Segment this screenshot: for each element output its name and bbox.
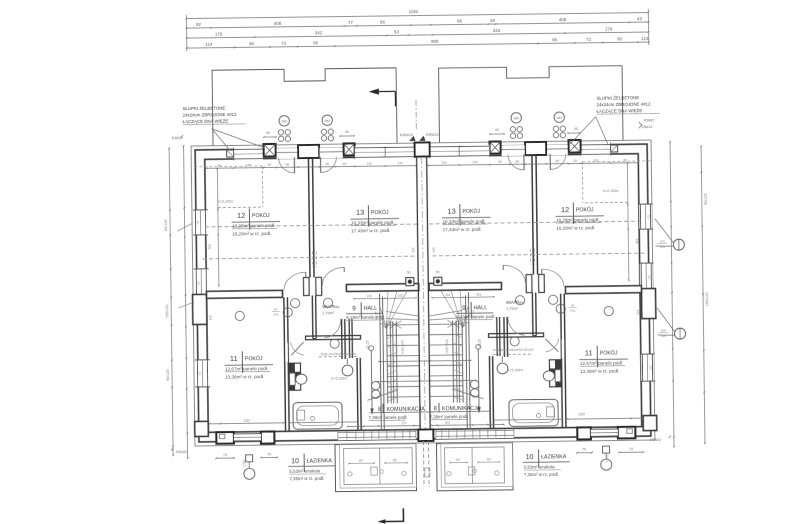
bottom center mark — [380, 508, 404, 521]
vestibule circles — [290, 299, 299, 308]
svg-text:16,33m² panele podł.: 16,33m² panele podł. — [443, 218, 486, 224]
svg-text:50: 50 — [407, 271, 411, 275]
svg-text:2,0%: 2,0% — [242, 460, 246, 468]
vestibule wall — [341, 319, 344, 359]
walk line — [476, 344, 481, 349]
interior top dim row — [428, 163, 638, 166]
svg-text:302: 302 — [635, 238, 639, 244]
top dimension lines — [185, 6, 649, 51]
svg-text:105: 105 — [660, 245, 665, 249]
svg-text:RSW12: RSW12 — [426, 133, 439, 137]
vestibule door arc to wc — [324, 319, 341, 338]
bottom wall window — [591, 428, 618, 436]
svg-text:24x24cm ZBROJONE 4#12: 24x24cm ZBROJONE 4#12 — [183, 112, 238, 118]
svg-text:10: 10 — [291, 458, 299, 465]
right side circle markers — [673, 239, 684, 250]
interroom wall cap — [298, 145, 319, 158]
stair flight band — [387, 321, 388, 403]
svg-text:17x18,2x25: 17x18,2x25 — [401, 340, 405, 357]
left wall windows — [194, 210, 207, 235]
svg-text:12: 12 — [561, 205, 569, 214]
vestibule left wall (below cap) — [535, 293, 538, 336]
svg-text:RSW2: RSW2 — [644, 118, 654, 122]
walk line — [369, 346, 374, 351]
svg-text:808: 808 — [431, 39, 439, 44]
svg-text:53: 53 — [394, 29, 400, 34]
bathtub — [509, 399, 558, 426]
dashed bath line — [491, 353, 531, 356]
svg-text:96: 96 — [380, 20, 386, 25]
svg-text:DB2: DB2 — [281, 119, 287, 123]
svg-text:96: 96 — [552, 37, 558, 42]
svg-text:96: 96 — [325, 162, 329, 166]
svg-text:119: 119 — [445, 421, 450, 425]
door jambs bottom of interroom wall — [303, 278, 309, 296]
svg-text:200: 200 — [578, 412, 584, 416]
svg-text:16,28m² panele podł.: 16,28m² panele podł. — [232, 223, 275, 229]
svg-text:DB2: DB2 — [513, 116, 519, 120]
leader lines slupki right — [570, 117, 596, 144]
svg-text:119: 119 — [401, 421, 406, 425]
komunikacja circles — [470, 380, 479, 389]
wall between rooms 12/13 — [308, 158, 310, 277]
svg-text:13,36m² w rz. podł.: 13,36m² w rz. podł. — [580, 368, 619, 374]
flue square with dot — [406, 278, 414, 286]
wall pilaster left bottom corner — [643, 415, 657, 430]
svg-text:150/120: 150/120 — [705, 292, 709, 306]
svg-text:16,20m² w rz. podł.: 16,20m² w rz. podł. — [232, 231, 271, 237]
svg-text:linia przemarzania stropu: linia przemarzania stropu — [493, 347, 534, 352]
svg-text:RSW2: RSW2 — [650, 438, 661, 442]
45 dim above doors — [264, 136, 276, 138]
svg-text:72: 72 — [586, 37, 592, 42]
svg-text:150/120: 150/120 — [165, 304, 169, 318]
party wall centerline above — [415, 100, 417, 129]
balcony door (room 13) — [502, 145, 525, 156]
svg-text:45: 45 — [266, 131, 270, 135]
svg-text:105: 105 — [661, 334, 666, 338]
wc wall stub — [348, 319, 351, 358]
winder X — [389, 321, 401, 329]
svg-text:20,25: 20,25 — [366, 340, 370, 349]
svg-text:POKÓJ: POKÓJ — [371, 209, 389, 216]
dashed roof projection line — [430, 253, 645, 256]
top wall: small column — [227, 150, 234, 157]
left dim lines — [169, 148, 173, 455]
svg-text:HALL: HALL — [364, 306, 378, 312]
wall inner line — [205, 154, 642, 433]
svg-text:205: 205 — [273, 312, 278, 316]
svg-text:11: 11 — [585, 348, 593, 357]
svg-text:142: 142 — [366, 161, 372, 165]
washbasin — [497, 363, 508, 374]
dashed ceiling line room12 — [582, 160, 650, 163]
balcony door left (room 12) — [277, 148, 298, 159]
svg-text:145: 145 — [445, 293, 451, 297]
dashed ceiling line room12 — [194, 165, 262, 168]
svg-text:POKÓJ: POKÓJ — [462, 208, 480, 215]
svg-text:13,36m² w rz. podł.: 13,36m² w rz. podł. — [225, 374, 264, 380]
terrace door/window bottom — [338, 431, 416, 441]
svg-text:439: 439 — [431, 247, 435, 253]
winder X — [447, 320, 459, 328]
chimney block hatched — [288, 363, 300, 390]
svg-text:O2: O2 — [648, 365, 652, 369]
vertical interior dim — [627, 163, 629, 280]
svg-text:2,0%: 2,0% — [605, 455, 609, 463]
svg-text:h=2,20m: h=2,20m — [331, 376, 347, 381]
stairs treads — [430, 323, 463, 325]
bottom wall window — [234, 433, 261, 441]
svg-text:HALL: HALL — [474, 305, 488, 311]
wc wall stub — [499, 317, 502, 356]
svg-text:ŁAZIENKA: ŁAZIENKA — [541, 454, 567, 460]
top wall: small column — [611, 145, 618, 152]
dashed roof projection line — [203, 256, 418, 259]
vestibule circles — [548, 295, 557, 304]
svg-text:7,36m² w rz. podł.: 7,36m² w rz. podł. — [524, 472, 559, 477]
svg-text:12,67m² panele podł.: 12,67m² panele podł. — [580, 360, 623, 366]
svg-text:24x24cm ZBROJONE 4#12: 24x24cm ZBROJONE 4#12 — [597, 102, 652, 108]
interior bottom dim row — [568, 417, 642, 420]
terrace door/window bottom — [436, 429, 514, 439]
svg-text:O2: O2 — [196, 220, 200, 224]
svg-text:ŁAZIENKA: ŁAZIENKA — [307, 458, 333, 464]
dim row under hall wall — [354, 297, 416, 300]
DB columns circles above top wall — [279, 116, 290, 127]
svg-text:77: 77 — [348, 20, 354, 25]
svg-text:45: 45 — [573, 159, 577, 163]
komunikacja circles — [371, 381, 380, 390]
door room12-hall — [542, 269, 564, 287]
interior top dim row — [206, 166, 416, 169]
svg-text:142: 142 — [472, 160, 478, 164]
svg-text:DB2: DB2 — [324, 119, 330, 123]
svg-text:POKÓJ: POKÓJ — [252, 212, 270, 219]
svg-text:RSW12: RSW12 — [400, 133, 413, 137]
svg-text:90/120: 90/120 — [166, 370, 170, 382]
bottom wall columns — [618, 427, 636, 439]
vestibule door arc to wc — [508, 316, 525, 335]
wall pilaster left mid — [193, 294, 207, 324]
svg-text:DB2: DB2 — [556, 116, 562, 120]
svg-text:45°: 45° — [359, 459, 365, 463]
svg-text:RSW2: RSW2 — [176, 450, 187, 454]
svg-text:ŁĄCZĄCE DNA WIEŻE: ŁĄCZĄCE DNA WIEŻE — [183, 119, 229, 125]
svg-text:SŁUPKI ŻELBETONE: SŁUPKI ŻELBETONE — [183, 106, 226, 112]
svg-text:POKÓJ: POKÓJ — [245, 355, 263, 362]
svg-text:h=2,20m: h=2,20m — [603, 188, 619, 193]
column S1 (24x24) — [569, 140, 581, 153]
svg-text:142: 142 — [397, 161, 403, 165]
svg-text:5,19m² panele podł.: 5,19m² panele podł. — [456, 314, 495, 320]
terrace left — [335, 444, 417, 492]
svg-text:408: 408 — [559, 17, 567, 22]
party wall — [417, 157, 421, 430]
column S2 — [490, 141, 501, 153]
circle below wiatr — [510, 337, 519, 346]
vestibule wall — [506, 317, 509, 357]
svg-text:90/120: 90/120 — [164, 220, 168, 232]
hall north wall left segment — [206, 290, 282, 298]
wall outer line — [195, 144, 651, 442]
leader lines slupki left — [212, 129, 230, 151]
roof outline right — [439, 66, 623, 143]
svg-text:179: 179 — [605, 27, 613, 32]
svg-text:45: 45 — [574, 127, 578, 131]
door room12-hall — [284, 272, 306, 290]
svg-text:O2: O2 — [646, 214, 650, 218]
vertical interior dim — [217, 169, 219, 286]
leader to left window — [177, 224, 192, 232]
bottom-left circle marker — [246, 455, 253, 462]
svg-text:302: 302 — [208, 244, 212, 250]
interroom wall cap — [525, 142, 546, 155]
svg-text:70: 70 — [267, 452, 271, 456]
svg-text:408: 408 — [274, 21, 282, 26]
stair flight band — [462, 321, 463, 403]
stair stringer wall — [468, 292, 470, 429]
chimney block hatched — [549, 360, 561, 387]
45 dim above doors — [568, 132, 580, 134]
svg-text:13: 13 — [447, 207, 455, 216]
dashed bath line — [319, 355, 359, 358]
stairs winder fan — [380, 305, 387, 328]
wall vestibule/bath horizontal — [489, 333, 544, 337]
washbasin — [342, 365, 353, 376]
vestibule left wall (below cap) — [311, 295, 314, 338]
svg-text:145: 145 — [593, 158, 599, 162]
hall north wall left segment — [565, 286, 641, 294]
svg-text:439: 439 — [411, 247, 415, 253]
svg-text:h=2,20m: h=2,20m — [507, 367, 523, 372]
outer contour — [191, 140, 655, 446]
top wall window 2 (long) — [430, 145, 490, 158]
stairwell dim lines — [379, 360, 471, 361]
svg-text:124: 124 — [641, 36, 649, 41]
svg-text:70: 70 — [629, 447, 633, 451]
svg-text:13: 13 — [356, 208, 364, 217]
svg-text:145: 145 — [476, 293, 482, 297]
svg-text:9: 9 — [352, 305, 356, 312]
svg-text:45°: 45° — [487, 458, 493, 462]
svg-text:11: 11 — [230, 354, 238, 363]
svg-text:linia przekrycia dachu: linia przekrycia dachu — [321, 352, 357, 356]
svg-text:80: 80 — [571, 304, 575, 308]
svg-text:96: 96 — [217, 163, 221, 167]
svg-text:175: 175 — [215, 32, 223, 37]
svg-text:17,43m² w rz. podł.: 17,43m² w rz. podł. — [351, 228, 390, 234]
svg-text:9: 9 — [462, 305, 466, 312]
hall north wall right segment — [346, 284, 418, 292]
svg-text:1192: 1192 — [409, 9, 419, 14]
toilet — [555, 370, 561, 382]
svg-text:12,67m² panele podł.: 12,67m² panele podł. — [225, 366, 268, 372]
svg-text:151: 151 — [209, 315, 213, 321]
stairs winder fan — [462, 304, 469, 327]
bottom-right circle marker — [603, 446, 610, 453]
svg-text:90: 90 — [249, 41, 255, 46]
svg-text:5,19m² panele podł.: 5,19m² panele podł. — [346, 314, 385, 320]
terrace right — [436, 443, 513, 491]
svg-text:98: 98 — [457, 19, 463, 24]
svg-text:12: 12 — [237, 211, 245, 220]
svg-text:25#12: 25#12 — [642, 125, 653, 129]
wall room11/bath — [284, 297, 286, 431]
svg-text:7,36m² w rz. podł.: 7,36m² w rz. podł. — [289, 476, 324, 481]
flag markers — [410, 137, 415, 141]
stair stringer wall — [380, 294, 382, 431]
svg-text:96: 96 — [623, 158, 627, 162]
wall pilaster left bottom corner — [195, 421, 209, 436]
svg-text:70: 70 — [582, 447, 586, 451]
toilet — [290, 373, 296, 385]
bottom wall columns — [216, 432, 234, 444]
wall vestibule/bath horizontal — [306, 335, 361, 339]
balcony door left (room 12) — [547, 145, 568, 156]
wall komunikacja/bath — [356, 358, 359, 431]
svg-text:90: 90 — [617, 37, 623, 42]
svg-text:45: 45 — [495, 128, 499, 132]
svg-text:ŁĄCZĄCE DNA WIEŻE: ŁĄCZĄCE DNA WIEŻE — [597, 108, 643, 114]
svg-text:1,70m²: 1,70m² — [506, 307, 519, 311]
party wall top cap — [415, 142, 430, 156]
door room13-hall — [503, 265, 525, 283]
svg-text:1,70m²: 1,70m² — [322, 311, 335, 315]
svg-text:80: 80 — [274, 307, 278, 311]
svg-text:O2: O2 — [196, 281, 200, 285]
svg-text:124: 124 — [205, 42, 213, 47]
svg-text:43: 43 — [637, 16, 643, 21]
svg-text:POKÓJ: POKÓJ — [600, 349, 618, 356]
svg-text:45: 45 — [267, 163, 271, 167]
svg-text:O2: O2 — [198, 371, 202, 375]
svg-text:205: 205 — [570, 309, 575, 313]
dim row under hall wall — [432, 296, 494, 299]
svg-text:45: 45 — [345, 130, 349, 134]
svg-text:96: 96 — [515, 160, 519, 164]
wall pilaster left mid — [641, 288, 655, 318]
stair break line — [452, 389, 483, 399]
svg-text:90/120: 90/120 — [704, 193, 708, 205]
svg-text:45°: 45° — [456, 458, 462, 462]
flue square with dot — [434, 277, 442, 285]
svg-text:151: 151 — [636, 309, 640, 315]
svg-text:102: 102 — [661, 328, 666, 332]
door room11-bath leaf — [291, 342, 304, 355]
svg-text:16,20m² w rz. podł.: 16,20m² w rz. podł. — [556, 225, 595, 231]
svg-text:h=2,20m: h=2,20m — [217, 199, 233, 204]
svg-text:50: 50 — [436, 270, 440, 274]
door jambs bottom of interroom wall — [539, 274, 545, 292]
party wall dashed below — [422, 441, 425, 487]
svg-text:45: 45 — [498, 160, 502, 164]
svg-text:96: 96 — [285, 163, 289, 167]
wall room11/bath — [564, 294, 566, 428]
bottom dim rows — [216, 457, 234, 459]
door room13-hall — [322, 267, 344, 285]
svg-text:96: 96 — [313, 41, 319, 46]
north arrow — [373, 91, 395, 106]
hall north wall right segment — [429, 282, 501, 290]
party wall bottom cap — [418, 429, 433, 441]
left wall windows — [639, 204, 652, 229]
svg-text:142: 142 — [441, 160, 447, 164]
svg-text:102: 102 — [660, 239, 665, 243]
DB columns circles above top wall — [554, 112, 565, 123]
svg-text:17,43m² w rz. podł.: 17,43m² w rz. podł. — [443, 227, 482, 233]
svg-text:70: 70 — [223, 453, 227, 457]
svg-text:16,28m² panele podł.: 16,28m² panele podł. — [556, 217, 599, 223]
svg-text:5,53m² terakota: 5,53m² terakota — [289, 468, 320, 473]
svg-text:45°: 45° — [393, 458, 399, 462]
svg-text:96: 96 — [555, 159, 559, 163]
svg-text:72: 72 — [281, 41, 287, 46]
wall komunikacja/bath — [492, 356, 495, 429]
svg-text:28: 28 — [490, 18, 496, 23]
svg-text:O2: O2 — [647, 275, 651, 279]
top wall: window 1 — [234, 148, 264, 160]
top wall: window 1 — [581, 143, 611, 155]
svg-text:10: 10 — [526, 454, 534, 461]
svg-text:342: 342 — [493, 28, 501, 33]
svg-text:SŁUPKI ŻELBETONE: SŁUPKI ŻELBETONE — [596, 95, 639, 101]
svg-text:145: 145 — [245, 163, 251, 167]
door room11-bath leaf — [546, 339, 559, 352]
wall between rooms 12/13 — [536, 155, 538, 274]
roof outline left — [212, 68, 397, 146]
column S1 (24x24) — [264, 144, 276, 157]
svg-text:200: 200 — [243, 419, 249, 423]
svg-text:7,38m² panele podł.: 7,38m² panele podł. — [369, 415, 408, 421]
party wall marks between terraces — [425, 468, 430, 477]
svg-text:20,25: 20,25 — [478, 339, 482, 348]
circle below wiatr — [330, 339, 339, 348]
stair break line — [367, 390, 398, 400]
column S2 — [344, 143, 355, 155]
svg-text:45: 45 — [342, 162, 346, 166]
top wall window 2 (long) — [355, 146, 415, 159]
bathtub — [293, 402, 342, 429]
svg-text:5,53m² terakota: 5,53m² terakota — [524, 464, 555, 469]
svg-text:342: 342 — [315, 31, 323, 36]
stairs treads — [386, 324, 419, 326]
svg-text:145: 145 — [397, 294, 403, 298]
svg-text:POKÓJ: POKÓJ — [576, 206, 594, 213]
interior bottom dim row — [210, 422, 284, 425]
svg-text:7,38m² panele podł.: 7,38m² panele podł. — [430, 414, 469, 420]
balcony door (room 13) — [320, 148, 343, 159]
right dim lines — [670, 142, 674, 447]
svg-text:17x18,2x25: 17x18,2x25 — [445, 339, 449, 356]
svg-text:145: 145 — [366, 294, 372, 298]
svg-text:16,33m² panele podł.: 16,33m² panele podł. — [351, 220, 394, 226]
svg-text:92: 92 — [196, 22, 202, 27]
